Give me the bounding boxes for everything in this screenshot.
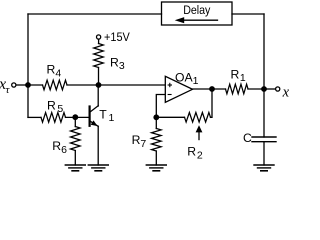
delay block (162, 2, 233, 25)
wire R6 to ground (74, 151, 76, 166)
junction node D (R7/R2/inverting) (153, 114, 159, 120)
wire node A to R4 (28, 84, 43, 86)
wire left vertical (27, 14, 29, 117)
wire node E to output terminal (264, 88, 276, 90)
delay arrow head (175, 17, 185, 23)
wire op-amp output to R1 (193, 88, 226, 90)
transistor T1 emitter diagonal (91, 122, 99, 127)
wire node D to R2 (156, 116, 184, 118)
wire R4 to node B (67, 84, 99, 86)
ground under R7 (146, 165, 166, 171)
wire left bend to R5 (28, 116, 41, 118)
wire R2 to feedback vertical (211, 89, 213, 117)
transistor T1 collector diagonal (91, 106, 99, 112)
ground under C (254, 165, 274, 171)
svg-text:R2: R2 (187, 145, 203, 162)
wire R1 to node E (248, 88, 264, 90)
ground under T1 emitter (88, 165, 108, 171)
R2 adjustment arrow (198, 132, 200, 140)
wire right vertical feedback to delay (263, 14, 265, 89)
wire R5 to node C and T1 base (66, 116, 89, 118)
junction node B (R3/R4/collector) (96, 82, 102, 88)
wire T1 collector to node B (97, 85, 99, 106)
svg-text:R7: R7 (132, 133, 147, 150)
resistor R6 (71, 127, 81, 151)
svg-text:+15V: +15V (104, 30, 131, 44)
transistor T1 base bar (88, 107, 90, 126)
op-amp plus sign (168, 83, 172, 87)
resistor R3 (94, 44, 104, 68)
delay arrow (183, 19, 218, 21)
op-amp minus sign (168, 94, 172, 96)
resistor R7 (152, 129, 162, 152)
ground under R6 (65, 165, 85, 171)
svg-text:Delay: Delay (183, 3, 211, 17)
junction node A (input) (25, 82, 31, 88)
transistor T1 emitter arrow head (91, 120, 98, 126)
junction node C (base/R6) (72, 114, 78, 120)
svg-text:C: C (243, 131, 252, 145)
wire +15V stub to R3 (98, 39, 100, 43)
resistor R1 (226, 84, 249, 94)
op-amp OA1 triangle (165, 76, 192, 102)
resistor R2 (185, 113, 211, 123)
wire op-amp inverting input (156, 95, 165, 118)
wire R7 to ground (155, 151, 157, 165)
+15V terminal (97, 35, 101, 39)
svg-text:R4: R4 (47, 63, 62, 80)
resistor R4 (43, 80, 68, 90)
wire T1 emitter to ground (97, 126, 99, 165)
junction node output (209, 86, 215, 92)
svg-text:τ: τ (6, 84, 11, 96)
wire node C to R6 (74, 117, 76, 126)
input terminal x_tau (12, 83, 16, 87)
wire R7 top stub (155, 117, 157, 128)
svg-text:R6: R6 (52, 139, 67, 156)
wire input lead (16, 84, 28, 86)
wire delay output to right vertical (232, 13, 264, 15)
wire node B to op-amp + input (99, 84, 166, 86)
svg-text:R3: R3 (110, 55, 125, 72)
wire node E to capacitor (263, 89, 265, 137)
svg-text:R1: R1 (231, 67, 246, 84)
svg-text:R5: R5 (47, 99, 63, 116)
wire top-left horizontal (28, 13, 162, 15)
svg-text:T1: T1 (99, 107, 114, 124)
capacitor C plates (252, 136, 276, 138)
output terminal x (276, 87, 280, 91)
resistor R5 (41, 113, 66, 123)
svg-text:x: x (282, 85, 289, 101)
junction node E (R1/C/delay) (261, 86, 267, 92)
wire capacitor to ground (263, 142, 265, 165)
wire R3 to node B (98, 68, 100, 86)
